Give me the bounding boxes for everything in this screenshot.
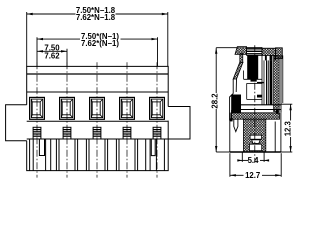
svg-text:12.7: 12.7 <box>245 171 260 180</box>
svg-text:7.62*N−1.8: 7.62*N−1.8 <box>76 13 116 22</box>
svg-text:28.2: 28.2 <box>211 93 220 109</box>
svg-text:5.4: 5.4 <box>248 156 260 165</box>
svg-text:7.62*(N−1): 7.62*(N−1) <box>81 39 119 48</box>
svg-text:12.3: 12.3 <box>283 120 292 136</box>
svg-text:7.62: 7.62 <box>44 51 60 60</box>
